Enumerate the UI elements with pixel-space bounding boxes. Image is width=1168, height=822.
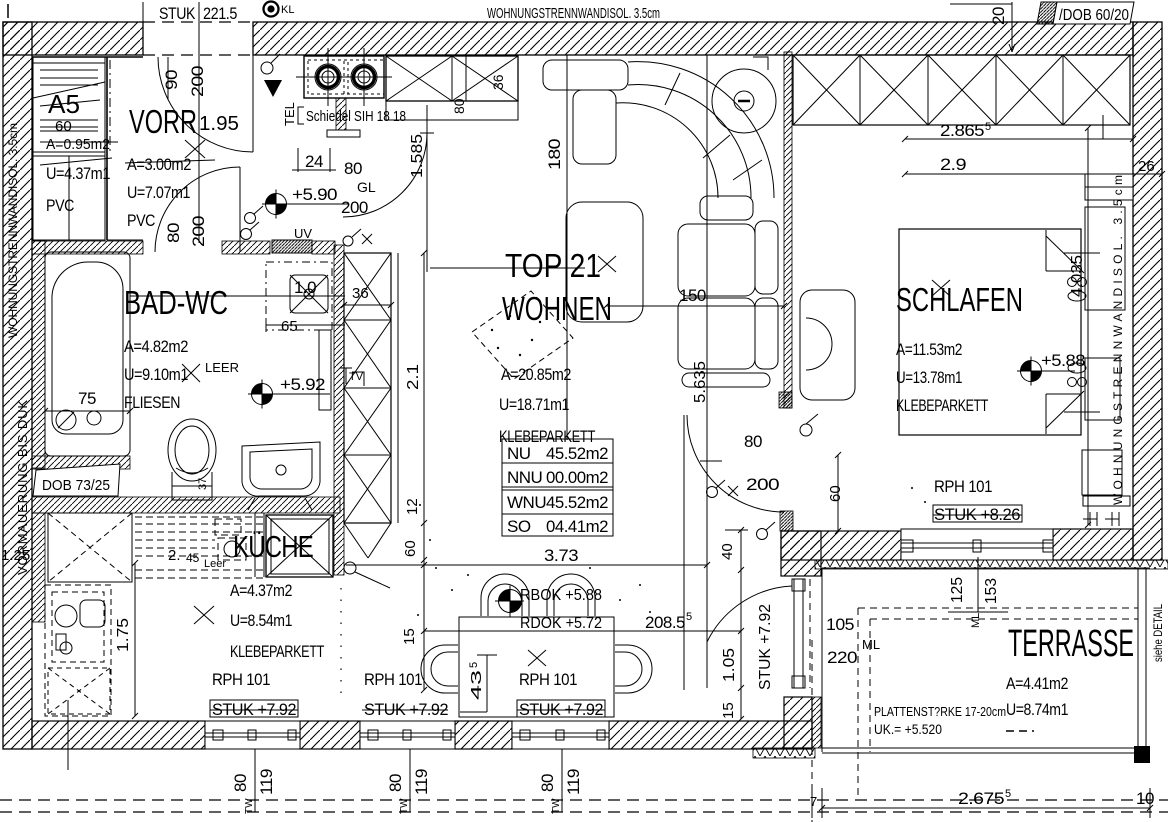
svg-text:220: 220 [827, 648, 857, 667]
wall inner edge left [31, 22, 33, 749]
closet A5 [33, 57, 105, 240]
dim line tub 75 [42, 408, 133, 414]
dim 153 rot [983, 578, 1000, 604]
floor dots dining [417, 487, 926, 616]
sofa corner cushion [700, 196, 753, 220]
terrace slab outline [822, 568, 1150, 753]
dashes terrasse [1006, 730, 1034, 732]
svg-text:STUK +7.92: STUK +7.92 [757, 604, 774, 690]
nightstand 2 [1085, 358, 1120, 420]
lamp symbol unit bottom [344, 562, 390, 588]
sofa armrest left [573, 90, 616, 164]
svg-text:221.5: 221.5 [203, 4, 237, 23]
svg-text:U=8.54m1: U=8.54m1 [230, 611, 292, 630]
rug dots [491, 315, 541, 356]
svg-text:RPH 101: RPH 101 [934, 477, 992, 496]
dim 60 rot corridor [827, 485, 844, 502]
svg-text:+5.90: +5.90 [292, 185, 337, 204]
sofa seat cushion 1 [678, 224, 755, 296]
dim line corridor x741 [725, 527, 748, 722]
svg-text:A=4.41m2: A=4.41m2 [1006, 674, 1068, 693]
wall wohnen-schlafen [784, 52, 792, 408]
window bottom 3 [512, 721, 609, 749]
wall bad-kueche band [32, 497, 340, 513]
kueche fridge x-box [266, 515, 333, 577]
svg-text:siehe DETAIL: siehe DETAIL [1151, 604, 1165, 662]
svg-text:DOB 73/25: DOB 73/25 [42, 477, 110, 494]
svg-text:20: 20 [989, 7, 1008, 25]
svg-text:12: 12 [404, 498, 421, 515]
svg-text:UK.= +5.520: UK.= +5.520 [874, 721, 942, 737]
svg-text:80: 80 [451, 98, 467, 114]
svg-text:15: 15 [401, 628, 418, 645]
dim line kueche 1.75 [132, 560, 138, 719]
kueche sink [55, 600, 105, 654]
dim 200 rot vorr [189, 216, 208, 247]
svg-text:80: 80 [164, 223, 183, 243]
svg-text:2.: 2. [168, 547, 181, 564]
dim drop line window3 [561, 749, 563, 812]
svg-text:U=18.71m1: U=18.71m1 [499, 395, 569, 414]
svg-text:A=20.85m2: A=20.85m2 [501, 365, 571, 384]
svg-text:2.9: 2.9 [940, 155, 966, 174]
svg-text:RBOK +5.88: RBOK +5.88 [520, 587, 602, 604]
cross mark top21 [598, 256, 616, 272]
wall bottom hatch segment 3 [455, 721, 512, 749]
roof band window [901, 529, 1053, 560]
svg-text:A=11.53m2: A=11.53m2 [896, 340, 962, 359]
dim 5.635 rot [692, 361, 709, 403]
dob 73-25 box [33, 464, 120, 496]
svg-text:36: 36 [490, 74, 506, 90]
wall inner edge top [253, 54, 1133, 56]
svg-text:2.675: 2.675 [958, 789, 1004, 808]
dashed site line 2 [0, 811, 1168, 813]
svg-text:208.5: 208.5 [645, 613, 685, 632]
lamp symbol kueche door [343, 229, 372, 246]
wall bottom hatch segment 1 [32, 721, 205, 749]
elevation symbol wohnen [495, 586, 524, 617]
terrace dashed boundary outer [812, 608, 1138, 822]
wardrobe row schlafen [793, 55, 1130, 125]
label vormauerung left rot [15, 400, 30, 575]
window bottom 2 [360, 721, 455, 749]
dim 12 rot unit [404, 498, 421, 515]
chair left [421, 645, 458, 693]
dashdot line a5 [109, 60, 111, 155]
svg-text:TW: TW [551, 798, 562, 814]
strike stuk826 schlafen [933, 505, 1022, 522]
svg-text:STUK +7.92: STUK +7.92 [212, 700, 296, 719]
svg-text:119: 119 [564, 769, 583, 795]
wall top main segment [253, 22, 1133, 55]
svg-text:80: 80 [386, 774, 405, 792]
svg-text:FLIESEN: FLIESEN [124, 393, 180, 412]
shower dashed enclosure [266, 262, 332, 330]
svg-text:+5.88: +5.88 [1041, 351, 1085, 370]
dim line 150 [603, 303, 787, 309]
svg-text:180: 180 [545, 139, 564, 170]
dim 1.585 rot [409, 134, 426, 178]
washbasin [242, 442, 320, 510]
dim drop line window2 [409, 749, 411, 812]
svg-text:80: 80 [744, 432, 762, 451]
sofa corner seam 1 [665, 73, 680, 105]
wall bottom hatch segment 2 [300, 721, 360, 749]
dim drop line window1 [254, 749, 256, 812]
kueche counter small appliance [224, 513, 264, 577]
sofa corner seam 2 [703, 135, 730, 158]
dim line gl door vertical [426, 105, 428, 272]
dim 15 rot corridor [720, 702, 737, 719]
sofa corner arc mid [628, 85, 751, 198]
rug tilted dashed [472, 291, 573, 379]
wall kueche left strip [32, 513, 45, 622]
dim 40 rot corridor [719, 543, 736, 560]
short line corridor [700, 460, 722, 462]
label ml rot terrace [970, 613, 982, 628]
bed [899, 229, 1100, 435]
svg-text:5: 5 [1005, 788, 1011, 800]
lamp symbol schlafen door [707, 480, 739, 498]
svg-text:3.73: 3.73 [544, 546, 578, 565]
dim line 125-153 [948, 557, 1008, 612]
svg-text:45.52m2: 45.52m2 [546, 493, 608, 512]
svg-text:U=9.10m1: U=9.10m1 [124, 365, 188, 384]
svg-text:119: 119 [257, 769, 276, 795]
window niche right wall [1085, 174, 1133, 200]
strike a095 [40, 141, 118, 143]
svg-text:A=3.00m2: A=3.00m2 [127, 155, 191, 174]
sofa corner arc inner [616, 103, 718, 198]
svg-text:WOHNUNGSTRENNWANDISOL. 3.5cm: WOHNUNGSTRENNWANDISOL. 3.5cm [6, 123, 20, 338]
svg-text:Leer: Leer [204, 558, 226, 570]
svg-text:PVC: PVC [46, 196, 74, 215]
svg-text:5: 5 [468, 662, 480, 668]
closet A5 top edge [32, 56, 143, 58]
svg-text:1.585: 1.585 [409, 134, 426, 178]
nu table box [502, 439, 613, 536]
tall unit column [344, 253, 398, 558]
label stuk rot corridor [757, 604, 774, 690]
label 20 top [989, 7, 1008, 25]
svg-text:36: 36 [352, 285, 369, 302]
svg-text:60: 60 [55, 118, 72, 135]
wall vorraum-bad right segment [222, 241, 270, 254]
svg-text:200: 200 [746, 475, 779, 494]
terrace post black [1134, 746, 1150, 763]
svg-text:45.52m2: 45.52m2 [546, 444, 608, 463]
wall tall-unit strip [334, 245, 344, 575]
dim 180 rot [545, 139, 564, 170]
dim 60 rot unit [402, 540, 419, 557]
dim line 4.035 [1085, 125, 1091, 528]
sofa seat cushion 2 [678, 298, 755, 369]
svg-text:00.00m2: 00.00m2 [546, 468, 608, 487]
dim line bad 65 [266, 318, 345, 332]
svg-text:U=7.07m1: U=7.07m1 [127, 183, 190, 202]
svg-text:TEL: TEL [282, 102, 297, 126]
svg-text:119: 119 [412, 769, 431, 795]
cross mark wohnen-table [528, 650, 546, 666]
elevation symbol vorraum [262, 190, 348, 219]
dim 80 rot shaft [451, 98, 467, 114]
wall block terrace-door bottom [784, 697, 812, 748]
lamp symbol corridor [757, 522, 776, 540]
svg-text:A5: A5 [48, 89, 80, 119]
svg-text:LEER: LEER [205, 360, 239, 375]
svg-text:TV: TV [349, 371, 364, 383]
spot symbol vorraum [264, 80, 282, 97]
svg-text:26: 26 [1138, 158, 1155, 175]
svg-text:150: 150 [679, 286, 706, 305]
dim 80 rot vorr [164, 223, 183, 243]
kueche stove x dashed [48, 668, 110, 714]
label tel rot [282, 102, 297, 126]
sliding door leaf bad-wc [319, 330, 331, 410]
label siehe detail rot [1151, 604, 1165, 662]
cross mark kueche [194, 606, 214, 624]
svg-text:NNU: NNU [507, 468, 542, 487]
strike a5 [40, 100, 112, 165]
sofa chaise seat [566, 202, 643, 322]
svg-text:+5.92: +5.92 [280, 375, 325, 394]
dashed site line 1 [0, 799, 1168, 801]
bottom dims window2 [386, 774, 405, 792]
chair top 2 [547, 574, 595, 616]
svg-text:RPH 101: RPH 101 [364, 670, 422, 689]
door arc entrance [158, 57, 253, 152]
svg-text:10: 10 [1136, 789, 1154, 808]
cross mark schlafen [932, 280, 950, 296]
svg-text:1.25: 1.25 [1, 547, 30, 564]
svg-text:WNU: WNU [507, 493, 546, 512]
svg-text:GL: GL [357, 179, 376, 195]
kuechen x-cabinet top-left [48, 513, 132, 582]
svg-text:1.0: 1.0 [294, 278, 316, 297]
UV electrical box [272, 240, 312, 253]
dim line 2.865 [902, 136, 1136, 142]
svg-text:U=4.37m1: U=4.37m1 [46, 164, 110, 183]
kueche counter top dashed [135, 517, 264, 578]
dim line 3.73 [346, 562, 710, 568]
svg-text:STUK +7.92: STUK +7.92 [519, 700, 603, 719]
svg-text:24: 24 [305, 152, 323, 171]
svg-text:5: 5 [686, 611, 692, 623]
radiator schlafen [1083, 496, 1130, 526]
svg-text:1.95: 1.95 [199, 113, 239, 135]
door jamb wohnen-schlafen [779, 392, 792, 408]
dim line bad 1.0 [130, 295, 345, 297]
wall bottom hatch segment 4 [609, 721, 812, 749]
svg-text:STUK +7.92: STUK +7.92 [364, 700, 448, 719]
toilet [168, 419, 216, 500]
svg-text:KLEBEPARKETT: KLEBEPARKETT [896, 396, 988, 415]
entrance door opening dashed [143, 21, 253, 23]
svg-text:SCHLAFEN: SCHLAFEN [896, 281, 1023, 318]
bell symbols vorraum [241, 206, 264, 240]
svg-text:7: 7 [810, 794, 817, 809]
svg-text:PVC: PVC [127, 211, 155, 230]
svg-text:2.1: 2.1 [405, 364, 422, 390]
shaft shelf [386, 101, 518, 120]
wall right [1133, 22, 1162, 560]
svg-text:TOP 21: TOP 21 [505, 247, 601, 284]
cross mark leer [182, 364, 200, 382]
wall vorr-bad filler [312, 241, 335, 254]
roof band over terrace hatch right [1053, 529, 1133, 560]
wall bathroom left strip [32, 241, 45, 468]
dim 1.05 rot corridor [721, 648, 738, 682]
door jamb terrace top [780, 511, 793, 531]
dim line x707 [706, 55, 708, 688]
kueche counter left dashed [45, 585, 111, 716]
wall strip terrace-door bottom right [812, 697, 821, 748]
sofa corner arc outer [628, 62, 774, 198]
svg-text:04.41m2: 04.41m2 [546, 517, 608, 536]
dim line x684 [683, 415, 685, 690]
svg-text:VORR: VORR [129, 103, 197, 140]
svg-text:NU: NU [507, 444, 531, 463]
dim 36 rot shaft [490, 74, 506, 90]
svg-text:RPH 101: RPH 101 [519, 670, 577, 689]
dim line stuk221 vertical [198, 2, 200, 243]
TV mark [340, 368, 364, 386]
dim line 2.675 [812, 788, 1153, 818]
window niche inner line [1085, 186, 1133, 188]
svg-text:TW: TW [399, 798, 410, 814]
shower tray [290, 275, 328, 313]
svg-text:U=13.78m1: U=13.78m1 [896, 368, 962, 387]
window bottom 1 [205, 721, 300, 749]
dim ticks unit column [421, 250, 427, 693]
terrace door dashed track [809, 579, 811, 688]
dim line 2.9 [902, 171, 1165, 177]
KL bullseye [264, 2, 279, 17]
svg-text:TERRASSE: TERRASSE [1008, 623, 1134, 665]
svg-text:A=4.37m2: A=4.37m2 [230, 581, 292, 600]
svg-text:40: 40 [719, 543, 736, 560]
svg-text:15: 15 [720, 702, 737, 719]
svg-text:60: 60 [402, 540, 419, 557]
svg-text:U=8.74m1: U=8.74m1 [1006, 700, 1068, 719]
pouf [712, 57, 776, 133]
dim line 24 bracket [292, 148, 336, 172]
terrace door swing arc [707, 586, 792, 642]
elevation symbol schlafen [1017, 357, 1075, 386]
svg-text:RPH 101: RPH 101 [212, 670, 270, 689]
dim tick gl [420, 132, 434, 134]
dim 1.75 rot [115, 618, 132, 652]
svg-text:200: 200 [189, 216, 208, 247]
svg-text:/DOB 60/20: /DOB 60/20 [1059, 7, 1129, 24]
bottom dims window1 [231, 774, 250, 792]
strike stuk792 kueche [210, 700, 298, 717]
shaft x-box row [386, 56, 518, 101]
strike a300 [125, 160, 215, 163]
svg-text:RDOK +5.72: RDOK +5.72 [520, 615, 602, 632]
dim 15 rot unit [401, 628, 418, 645]
dim line 208.5 [421, 628, 744, 634]
svg-text:Schiedel SIH 18 18: Schiedel SIH 18 18 [306, 108, 406, 125]
svg-text:PLATTENST?RKE 17-20cm: PLATTENST?RKE 17-20cm [874, 704, 1006, 719]
dim tick x1103 [1102, 115, 1104, 139]
terrace door frame [792, 579, 805, 688]
dim line x143 [142, 2, 144, 55]
svg-text:153: 153 [983, 578, 1000, 604]
vorraum floor line [107, 239, 143, 241]
dresser schlafen [1082, 450, 1122, 495]
svg-text:UV: UV [294, 226, 312, 241]
dim line x567 [566, 55, 568, 440]
dob 60-20 box [1053, 2, 1134, 24]
chimney leg wall [336, 98, 346, 130]
nightstand 1 [1085, 207, 1125, 310]
dim 4.035 rot [1069, 255, 1086, 297]
wall under bathtub [32, 456, 130, 469]
svg-text:KL: KL [281, 4, 294, 16]
dim line schlafen 60 [820, 452, 845, 534]
svg-text:KÜCHE: KÜCHE [233, 529, 313, 564]
sofa back strip 2 [755, 298, 778, 369]
door arc bad-wc [155, 167, 240, 252]
svg-text:5: 5 [985, 121, 991, 133]
terrace dashed boundary inner [870, 619, 1138, 752]
wall top left segment [3, 22, 143, 55]
schiedel bracket [298, 107, 304, 124]
wall block terrace-door left [781, 531, 901, 560]
dim line vorr 90-200 [167, 57, 169, 100]
bottom dims window3 [538, 774, 557, 792]
svg-text:37: 37 [197, 478, 209, 490]
svg-text:1.05: 1.05 [721, 648, 738, 682]
svg-text:200: 200 [341, 198, 368, 217]
sofa back top cushion [543, 60, 628, 90]
svg-text:WOHNUNGSTRENNWANDISOL. 3.5cm: WOHNUNGSTRENNWANDISOL. 3.5cm [487, 5, 660, 22]
svg-text:65: 65 [281, 318, 298, 335]
dining table [459, 617, 614, 717]
dob 60-20 hatched wedge [1037, 2, 1057, 24]
door cross mark entrance [185, 140, 205, 158]
dim line unit column [423, 253, 425, 690]
sofa bottom cushion [682, 373, 770, 387]
label wohnungstrennwand left rot [6, 123, 20, 338]
wall block terrace-door left lower [781, 531, 821, 576]
svg-text:90: 90 [162, 70, 181, 90]
door arc kueche [343, 133, 427, 217]
svg-text:1.75: 1.75 [115, 618, 132, 652]
elevation symbol bad [248, 380, 330, 409]
closet A5 wall right [106, 57, 108, 240]
svg-text:80: 80 [344, 159, 362, 178]
svg-text:KLEBEPARKETT: KLEBEPARKETT [230, 642, 324, 661]
entrance door leaf [252, 55, 254, 152]
svg-text:60: 60 [827, 485, 844, 502]
terrace insulation zigzag top [815, 560, 1168, 569]
terrace insulation zigzag bottom [753, 748, 815, 758]
svg-text:ML: ML [862, 637, 880, 652]
dotted line below unit [340, 588, 342, 702]
strike stuk792 table [517, 700, 605, 717]
svg-text:105: 105 [826, 615, 854, 634]
svg-text:4.035: 4.035 [1069, 255, 1086, 297]
dim line top21 strike [430, 267, 585, 269]
lamp symbol vorraum [261, 54, 280, 74]
label wohnungstrennwand right rot [1111, 175, 1125, 505]
door leaf bad-wc [239, 167, 241, 252]
dim drop line left [67, 700, 69, 770]
svg-text:75: 75 [78, 389, 96, 408]
